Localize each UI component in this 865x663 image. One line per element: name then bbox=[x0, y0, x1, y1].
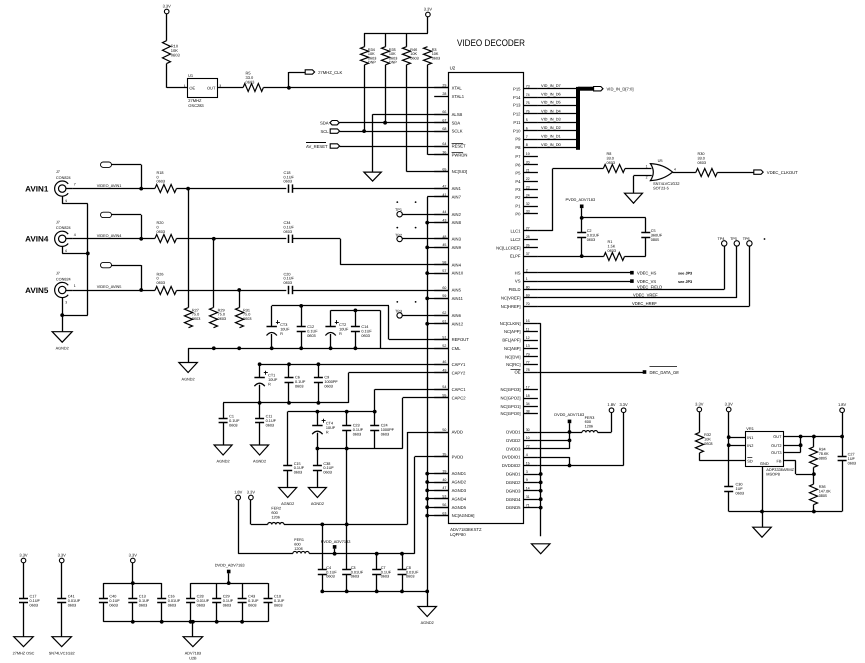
svg-text:R18: R18 bbox=[157, 171, 164, 175]
svg-text:0.1UF: 0.1UF bbox=[274, 599, 285, 603]
svg-text:65: 65 bbox=[442, 167, 446, 171]
pin 76 P12 (right) bbox=[524, 113, 538, 115]
svg-text:NC[HREF]: NC[HREF] bbox=[501, 304, 521, 309]
pin 3 DGND1 (right) bbox=[524, 474, 538, 476]
svg-text:0.1UF: 0.1UF bbox=[294, 466, 305, 470]
svg-text:DVDDIO1: DVDDIO1 bbox=[502, 455, 521, 460]
svg-text:75: 75 bbox=[526, 101, 530, 105]
svg-text:DGND1: DGND1 bbox=[506, 472, 521, 477]
svg-text:OSC283: OSC283 bbox=[188, 103, 204, 108]
wire CAPY1 rail bbox=[260, 364, 449, 366]
svg-text:0603: 0603 bbox=[284, 180, 292, 184]
svg-text:0603: 0603 bbox=[323, 471, 331, 475]
svg-text:U1: U1 bbox=[188, 73, 194, 78]
svg-text:CT1: CT1 bbox=[268, 374, 275, 378]
wire VDEC_VREF to TP5 bbox=[538, 297, 737, 299]
svg-text:0.01UF: 0.01UF bbox=[197, 599, 210, 603]
pin 50 AVDD (left) bbox=[434, 432, 448, 434]
svg-text:0603: 0603 bbox=[704, 442, 712, 446]
svg-text:PVDD_ADV7183: PVDD_ADV7183 bbox=[566, 197, 596, 202]
wire AVDD rail bbox=[284, 524, 407, 526]
capacitor C7 0.1UF bbox=[376, 554, 378, 570]
svg-text:R: R bbox=[280, 332, 283, 336]
svg-text:AVDD: AVDD bbox=[452, 430, 463, 435]
wire AVIN5 shield to ground bbox=[62, 315, 64, 332]
wire 3.3V to FER2 bbox=[250, 500, 252, 525]
svg-text:0603: 0603 bbox=[284, 230, 292, 234]
ground AGND2 (rail) bbox=[179, 363, 198, 373]
svg-text:VIDEO_AVIN1: VIDEO_AVIN1 bbox=[97, 184, 122, 188]
ground AGND2 (C1) bbox=[214, 445, 232, 455]
capacitor C11 0.1UF bbox=[259, 403, 261, 419]
pin 62 AIN6 (left) bbox=[434, 315, 448, 317]
svg-text:ELPF: ELPF bbox=[510, 254, 521, 259]
svg-text:SN74LVC1G32: SN74LVC1G32 bbox=[49, 651, 75, 655]
capacitor C4 0.1UF bbox=[322, 524, 324, 570]
svg-text:CT2: CT2 bbox=[339, 323, 346, 327]
svg-text:SDA: SDA bbox=[320, 121, 329, 126]
svg-text:0.1UF: 0.1UF bbox=[139, 599, 150, 603]
svg-text:C6: C6 bbox=[295, 376, 300, 380]
power 3.3V (DVDDIO) bbox=[621, 408, 626, 413]
svg-text:DNP: DNP bbox=[368, 61, 376, 65]
ground (VR1) bbox=[753, 527, 772, 537]
svg-text:0.1UF: 0.1UF bbox=[248, 599, 259, 603]
resistor R29 75.0 0603 bbox=[210, 308, 218, 328]
svg-text:P9: P9 bbox=[515, 137, 521, 142]
svg-text:SOT23-5: SOT23-5 bbox=[653, 186, 669, 191]
power 3.3V (C41) bbox=[59, 558, 64, 563]
svg-text:VDEC_VS: VDEC_VS bbox=[637, 279, 656, 284]
svg-text:0.1UF: 0.1UF bbox=[223, 599, 234, 603]
svg-text:78.6K: 78.6K bbox=[819, 452, 829, 456]
resistor R34 78.6K 0805 (divider top) bbox=[813, 437, 815, 447]
svg-text:47: 47 bbox=[442, 486, 446, 490]
svg-text:C15: C15 bbox=[294, 462, 301, 466]
wire 3.3V to R10 bbox=[166, 14, 168, 41]
svg-text:DGND3: DGND3 bbox=[506, 488, 521, 493]
svg-text:8: 8 bbox=[526, 143, 528, 147]
svg-text:DGND4: DGND4 bbox=[506, 497, 521, 502]
svg-text:39: 39 bbox=[442, 469, 446, 473]
pin 46 CAPY1 (left) bbox=[434, 364, 448, 366]
wire VID_IN_D1 bbox=[538, 139, 576, 141]
svg-text:0805: 0805 bbox=[651, 238, 659, 242]
svg-text:VID_IN_D7: VID_IN_D7 bbox=[541, 83, 561, 88]
capacitor C43 0.1UF bbox=[242, 583, 244, 598]
svg-text:C38: C38 bbox=[323, 462, 330, 466]
pin 65 NC[SIO] (left) bbox=[434, 171, 448, 173]
capacitor CT3 10UF (electrolytic) bbox=[271, 306, 273, 327]
svg-text:DGND2: DGND2 bbox=[506, 480, 521, 485]
svg-text:OUT3: OUT3 bbox=[771, 450, 781, 455]
svg-text:ALSB: ALSB bbox=[452, 112, 463, 117]
pin 40 AGND2 (left) bbox=[434, 482, 448, 484]
svg-text:0.1UF: 0.1UF bbox=[109, 599, 120, 603]
svg-text:56: 56 bbox=[442, 503, 446, 507]
svg-text:CAPY1: CAPY1 bbox=[452, 362, 466, 367]
pin 17 NC[GPO3] (right) bbox=[524, 389, 538, 391]
wire OUT2 OUT3 tie bbox=[784, 445, 801, 447]
svg-text:P5: P5 bbox=[515, 171, 521, 176]
svg-text:J7: J7 bbox=[56, 220, 60, 224]
svg-text:0: 0 bbox=[157, 277, 159, 281]
svg-text:FIELD: FIELD bbox=[509, 287, 521, 292]
capacitor C16 0.01UF bbox=[161, 583, 163, 598]
svg-text:FER2: FER2 bbox=[271, 507, 281, 511]
svg-text:R: R bbox=[268, 383, 271, 387]
svg-text:AIN8: AIN8 bbox=[452, 220, 462, 225]
svg-text:VID_IN_D1: VID_IN_D1 bbox=[541, 134, 561, 139]
wire GND pin to ground bbox=[762, 466, 764, 527]
wire VID_IN_D5 bbox=[538, 105, 576, 107]
pin 34 NC[GPO1] (right) bbox=[524, 406, 538, 408]
svg-text:1000PF: 1000PF bbox=[381, 428, 395, 432]
wire DEC_DATA_OE bbox=[538, 372, 645, 374]
svg-text:26: 26 bbox=[526, 244, 530, 248]
svg-text:7: 7 bbox=[74, 183, 76, 187]
svg-text:AGND2: AGND2 bbox=[421, 621, 434, 625]
svg-text:LLC1: LLC1 bbox=[510, 229, 521, 234]
pin 5 P11 (right) bbox=[524, 122, 538, 124]
svg-text:DGND5: DGND5 bbox=[506, 505, 521, 510]
svg-text:OUT2: OUT2 bbox=[771, 443, 781, 448]
pin 22 P4 (right) bbox=[524, 181, 538, 183]
wire PVDD ground rail bbox=[322, 591, 427, 593]
pin 67 SDA (left) bbox=[434, 122, 448, 124]
svg-text:73: 73 bbox=[526, 85, 530, 89]
svg-text:P10: P10 bbox=[513, 128, 521, 133]
svg-text:P15: P15 bbox=[513, 86, 521, 91]
wire R3 to PWRDN line bbox=[427, 65, 429, 155]
wire CAPC bottom rail to CAPC2 bbox=[317, 448, 402, 450]
svg-text:77: 77 bbox=[526, 360, 530, 364]
svg-text:59: 59 bbox=[442, 294, 446, 298]
svg-text:P7: P7 bbox=[515, 154, 521, 159]
svg-text:AGND2: AGND2 bbox=[56, 346, 69, 350]
pin 53 AGND4 (left) bbox=[434, 498, 448, 500]
svg-text:9: 9 bbox=[526, 478, 528, 482]
svg-text:C9: C9 bbox=[324, 376, 329, 380]
svg-text:C30: C30 bbox=[736, 483, 743, 487]
svg-text:AIN6: AIN6 bbox=[452, 313, 462, 318]
svg-text:1.8V: 1.8V bbox=[234, 489, 243, 494]
svg-text:PWRDN: PWRDN bbox=[452, 152, 468, 157]
capacitor C41 0.01UF bbox=[57, 598, 66, 600]
svg-text:7: 7 bbox=[526, 135, 528, 139]
svg-text:46: 46 bbox=[442, 360, 446, 364]
pin 80 FIELD (right) bbox=[524, 289, 538, 291]
svg-text:R: R bbox=[339, 332, 342, 336]
svg-text:0.1UF: 0.1UF bbox=[381, 570, 392, 574]
svg-text:10K: 10K bbox=[704, 437, 711, 441]
svg-text:NC[SIO]: NC[SIO] bbox=[452, 169, 468, 174]
svg-text:27: 27 bbox=[526, 227, 530, 231]
pin 56 AGND5 (left) bbox=[434, 507, 448, 509]
svg-text:U2B: U2B bbox=[189, 657, 197, 661]
svg-text:AGND2: AGND2 bbox=[311, 502, 324, 506]
pin 10 DVDD2 (right) bbox=[524, 440, 538, 442]
svg-text:22: 22 bbox=[526, 177, 530, 181]
pin 6 P10 (right) bbox=[524, 130, 538, 132]
power 3.3V (C17) bbox=[21, 558, 26, 563]
capacitor C38 0.1UF bbox=[317, 449, 319, 466]
svg-text:VID_IN_D2: VID_IN_D2 bbox=[541, 125, 561, 130]
svg-text:FB: FB bbox=[777, 458, 782, 463]
svg-text:P13: P13 bbox=[513, 103, 521, 108]
wire REFOUT rail bbox=[272, 305, 389, 307]
svg-text:VID_IN_D4: VID_IN_D4 bbox=[541, 108, 562, 113]
wire DGND tie column bbox=[540, 323, 542, 536]
pin 55 CAPC2 (left) bbox=[434, 397, 448, 399]
svg-text:P12: P12 bbox=[513, 111, 521, 116]
svg-text:15: 15 bbox=[526, 461, 530, 465]
pin 32 P1 (right) bbox=[524, 206, 538, 208]
pin 28 XTAL1 (left) bbox=[434, 96, 448, 98]
pin 31 DGND4 (right) bbox=[524, 499, 538, 501]
pin 26 NC[LLCREF] (right) bbox=[524, 247, 538, 249]
svg-text:REFOUT: REFOUT bbox=[452, 337, 470, 342]
svg-text:C1: C1 bbox=[229, 415, 234, 419]
svg-text:C13: C13 bbox=[139, 595, 146, 599]
svg-text:R1: R1 bbox=[608, 240, 613, 244]
wire C20 to AIN5 bbox=[292, 290, 448, 292]
resistor R27 75.0 0603 bbox=[185, 308, 193, 328]
svg-text:P4: P4 bbox=[515, 179, 521, 184]
power 3.3V (pull-up bank) bbox=[426, 12, 431, 17]
pin 28 LLC2 (right) bbox=[524, 239, 538, 241]
power 3.3V (oscillator pull-up) bbox=[164, 9, 169, 14]
svg-text:68: 68 bbox=[442, 127, 446, 131]
svg-text:10: 10 bbox=[526, 436, 530, 440]
svg-text:CT3: CT3 bbox=[280, 323, 287, 327]
wire DVDDIO to 3.3V bbox=[538, 457, 570, 459]
svg-text:NC[VREF]: NC[VREF] bbox=[501, 296, 521, 301]
svg-text:C40: C40 bbox=[109, 595, 116, 599]
svg-text:51: 51 bbox=[442, 335, 446, 339]
svg-text:AGND3: AGND3 bbox=[452, 488, 467, 493]
pin 49 CAPY2 (left) bbox=[434, 372, 448, 374]
svg-text:12: 12 bbox=[526, 336, 530, 340]
capacitor CT4 10UF (electrolytic) bbox=[317, 412, 319, 426]
pin 23 P3 (right) bbox=[524, 189, 538, 191]
wire OR gate input 2 to ground bbox=[634, 175, 652, 177]
svg-text:see JP3: see JP3 bbox=[678, 280, 692, 284]
svg-text:33: 33 bbox=[526, 210, 530, 214]
svg-text:0805: 0805 bbox=[819, 456, 827, 460]
capacitor C10 0.1UF bbox=[268, 583, 270, 598]
svg-text:R8: R8 bbox=[607, 152, 612, 156]
svg-text:U2: U2 bbox=[450, 66, 456, 71]
svg-text:DVDD3: DVDD3 bbox=[506, 446, 521, 451]
svg-text:C24: C24 bbox=[381, 424, 388, 428]
svg-text:0603: 0603 bbox=[406, 575, 414, 579]
svg-text:DVDDIO2: DVDDIO2 bbox=[502, 463, 521, 468]
svg-text:AGND2: AGND2 bbox=[182, 377, 195, 381]
svg-text:1: 1 bbox=[646, 164, 648, 168]
svg-text:66: 66 bbox=[442, 110, 446, 114]
svg-text:1UF: 1UF bbox=[848, 457, 856, 461]
svg-text:J7: J7 bbox=[56, 170, 60, 174]
svg-text:14: 14 bbox=[526, 487, 530, 491]
wire AV_RESET to chip RESET bbox=[340, 146, 449, 148]
svg-text:AGND2: AGND2 bbox=[281, 502, 294, 506]
resistor R31 75.0 0603 bbox=[236, 308, 244, 328]
svg-text:37: 37 bbox=[526, 252, 530, 256]
plug tag, resistor R26 0 0603, capacitor C20 0.1UF (AVIN5 path) bbox=[101, 262, 112, 267]
svg-text:0.1UF: 0.1UF bbox=[30, 599, 41, 603]
svg-text:6: 6 bbox=[526, 127, 528, 131]
svg-text:P14: P14 bbox=[513, 95, 521, 100]
analog ground rail bbox=[188, 348, 449, 350]
svg-text:600: 600 bbox=[271, 511, 277, 515]
svg-text:AGND4: AGND4 bbox=[452, 496, 467, 501]
svg-text:C27: C27 bbox=[848, 453, 855, 457]
capacitor C28 0.01UF bbox=[190, 583, 192, 598]
svg-text:30: 30 bbox=[526, 428, 530, 432]
wire rail to AGND2 (decoupling) bbox=[427, 591, 429, 606]
svg-text:0603: 0603 bbox=[248, 603, 256, 607]
wire AVIN1 to R27 bbox=[188, 189, 190, 308]
svg-text:0603: 0603 bbox=[157, 180, 165, 184]
svg-text:AIN10: AIN10 bbox=[452, 271, 464, 276]
svg-text:AIN12: AIN12 bbox=[452, 321, 464, 326]
capacitor C29 0.1UF bbox=[216, 583, 218, 598]
pin 66 ALSB (left) bbox=[434, 114, 448, 116]
svg-text:R36: R36 bbox=[819, 485, 826, 489]
wire AGND pins to column bbox=[427, 473, 448, 475]
pin 11 NC[APF] (right) bbox=[524, 331, 538, 333]
svg-text:0603: 0603 bbox=[218, 317, 226, 321]
pin 20 P6 (right) bbox=[524, 164, 538, 166]
BNC shield wires to AGND2 bbox=[62, 196, 64, 204]
pin 45 AIN9 (left) bbox=[434, 247, 448, 249]
svg-text:C20: C20 bbox=[284, 272, 291, 276]
svg-text:AV_RESET: AV_RESET bbox=[306, 144, 328, 149]
svg-text:1: 1 bbox=[74, 284, 76, 288]
ground (DGND) bbox=[531, 544, 550, 554]
svg-text:SD: SD bbox=[747, 458, 753, 463]
svg-text:69: 69 bbox=[526, 294, 530, 298]
svg-text:SDA: SDA bbox=[452, 120, 461, 125]
capacitor C23 0.1UF bbox=[346, 412, 348, 426]
svg-text:16: 16 bbox=[526, 319, 530, 323]
svg-text:0603: 0603 bbox=[229, 423, 237, 427]
svg-text:R34: R34 bbox=[819, 448, 826, 452]
svg-text:0603: 0603 bbox=[351, 575, 359, 579]
svg-text:60: 60 bbox=[442, 286, 446, 290]
tag VID_IN_D[7:0] bbox=[594, 87, 603, 91]
capacitor C40 0.1UF bbox=[103, 583, 105, 598]
pin 15 DVDDIO2 (right) bbox=[524, 465, 538, 467]
pin 61 AIN12 (left) bbox=[434, 323, 448, 325]
capacitor C1 0.1UF bbox=[223, 403, 225, 419]
svg-text:0603: 0603 bbox=[243, 317, 251, 321]
capacitor C8 0.01UF bbox=[402, 554, 404, 570]
svg-text:0603: 0603 bbox=[587, 238, 595, 242]
svg-text:28: 28 bbox=[442, 92, 446, 96]
svg-text:AGND2: AGND2 bbox=[253, 460, 266, 464]
svg-text:CON824: CON824 bbox=[56, 226, 71, 230]
pin 7 P9 (right) bbox=[524, 139, 538, 141]
svg-text:57: 57 bbox=[442, 269, 446, 273]
svg-text:23: 23 bbox=[526, 185, 530, 189]
svg-text:3.3V: 3.3V bbox=[619, 402, 628, 407]
connector J7 AVIN1 (BNC) bbox=[55, 181, 69, 196]
svg-text:VID_IN_D3: VID_IN_D3 bbox=[541, 117, 561, 122]
svg-text:NC[AGND6]: NC[AGND6] bbox=[452, 513, 475, 518]
svg-text:0.1UF: 0.1UF bbox=[353, 428, 364, 432]
svg-text:0.1UF: 0.1UF bbox=[323, 466, 334, 470]
wire OR gate output to R30 bbox=[673, 172, 696, 174]
svg-text:NC[LLCREF]: NC[LLCREF] bbox=[496, 245, 520, 250]
svg-text:TP5: TP5 bbox=[730, 237, 737, 241]
svg-text:6: 6 bbox=[65, 249, 67, 253]
wire ELPF to filter bbox=[538, 256, 604, 258]
resistor R5 33.0 0603 bbox=[243, 84, 263, 92]
resistor R46 10K 0603 bbox=[403, 47, 411, 65]
svg-text:C11: C11 bbox=[266, 415, 273, 419]
svg-text:10UF: 10UF bbox=[326, 426, 336, 430]
junction to 27MHZ_CLK tag bbox=[287, 86, 291, 90]
pin 38 NC[GPO0] (right) bbox=[524, 413, 538, 415]
svg-text:0.1UF: 0.1UF bbox=[307, 329, 318, 333]
resistor R36 147.0K 0805 (divider bottom) bbox=[810, 484, 818, 504]
svg-text:0.01UF: 0.01UF bbox=[587, 233, 600, 237]
svg-text:PVDD: PVDD bbox=[452, 454, 464, 459]
wire PVDD rail bbox=[309, 553, 414, 555]
svg-text:10UF: 10UF bbox=[339, 327, 349, 331]
svg-text:VIDEO_AVIN5: VIDEO_AVIN5 bbox=[97, 285, 122, 289]
svg-text:31: 31 bbox=[526, 495, 530, 499]
pin 9 DGND2 (right) bbox=[524, 482, 538, 484]
svg-text:0.1UF: 0.1UF bbox=[284, 277, 295, 281]
svg-text:BFL[APF]: BFL[APF] bbox=[502, 338, 520, 343]
svg-text:0.1UF: 0.1UF bbox=[229, 419, 240, 423]
svg-text:50: 50 bbox=[442, 428, 446, 432]
svg-text:1206: 1206 bbox=[271, 515, 279, 519]
capacitor C5 360UF bbox=[641, 232, 650, 234]
pin 41 AIN7 (left) bbox=[434, 196, 448, 198]
svg-text:OUT: OUT bbox=[207, 86, 216, 91]
svg-text:3.3V: 3.3V bbox=[247, 489, 256, 494]
capacitor C24 1000PF bbox=[374, 412, 376, 426]
svg-text:CAPC2: CAPC2 bbox=[452, 395, 467, 400]
svg-text:CML: CML bbox=[452, 346, 462, 351]
svg-text:1000PF: 1000PF bbox=[324, 380, 338, 384]
svg-text:LQFP80: LQFP80 bbox=[450, 532, 466, 537]
svg-text:34: 34 bbox=[526, 402, 530, 406]
wire U2 decoupling rail A bbox=[103, 583, 161, 585]
pin 14 DGND3 (right) bbox=[524, 490, 538, 492]
svg-text:AIN5: AIN5 bbox=[452, 288, 462, 293]
wire CAPC1 rail bbox=[374, 389, 376, 411]
pin 79 NC[DVI] (right) bbox=[524, 356, 538, 358]
wire CML rail bbox=[331, 310, 381, 312]
wire VID_IN_D4 bbox=[538, 113, 576, 115]
svg-text:78: 78 bbox=[526, 368, 530, 372]
svg-text:24: 24 bbox=[526, 193, 530, 197]
wire FB to divider bbox=[784, 460, 796, 462]
svg-text:3.3V: 3.3V bbox=[19, 552, 28, 557]
wire R32 to SD pin bbox=[699, 453, 701, 461]
svg-text:XTAL1: XTAL1 bbox=[452, 94, 465, 99]
capacitor C3 0.01UF bbox=[346, 524, 348, 570]
svg-text:3.3V: 3.3V bbox=[58, 552, 67, 557]
svg-text:70: 70 bbox=[526, 302, 530, 306]
pin 19 P7 (right) bbox=[524, 156, 538, 158]
resistor R30 33.0 0603 bbox=[696, 169, 717, 177]
